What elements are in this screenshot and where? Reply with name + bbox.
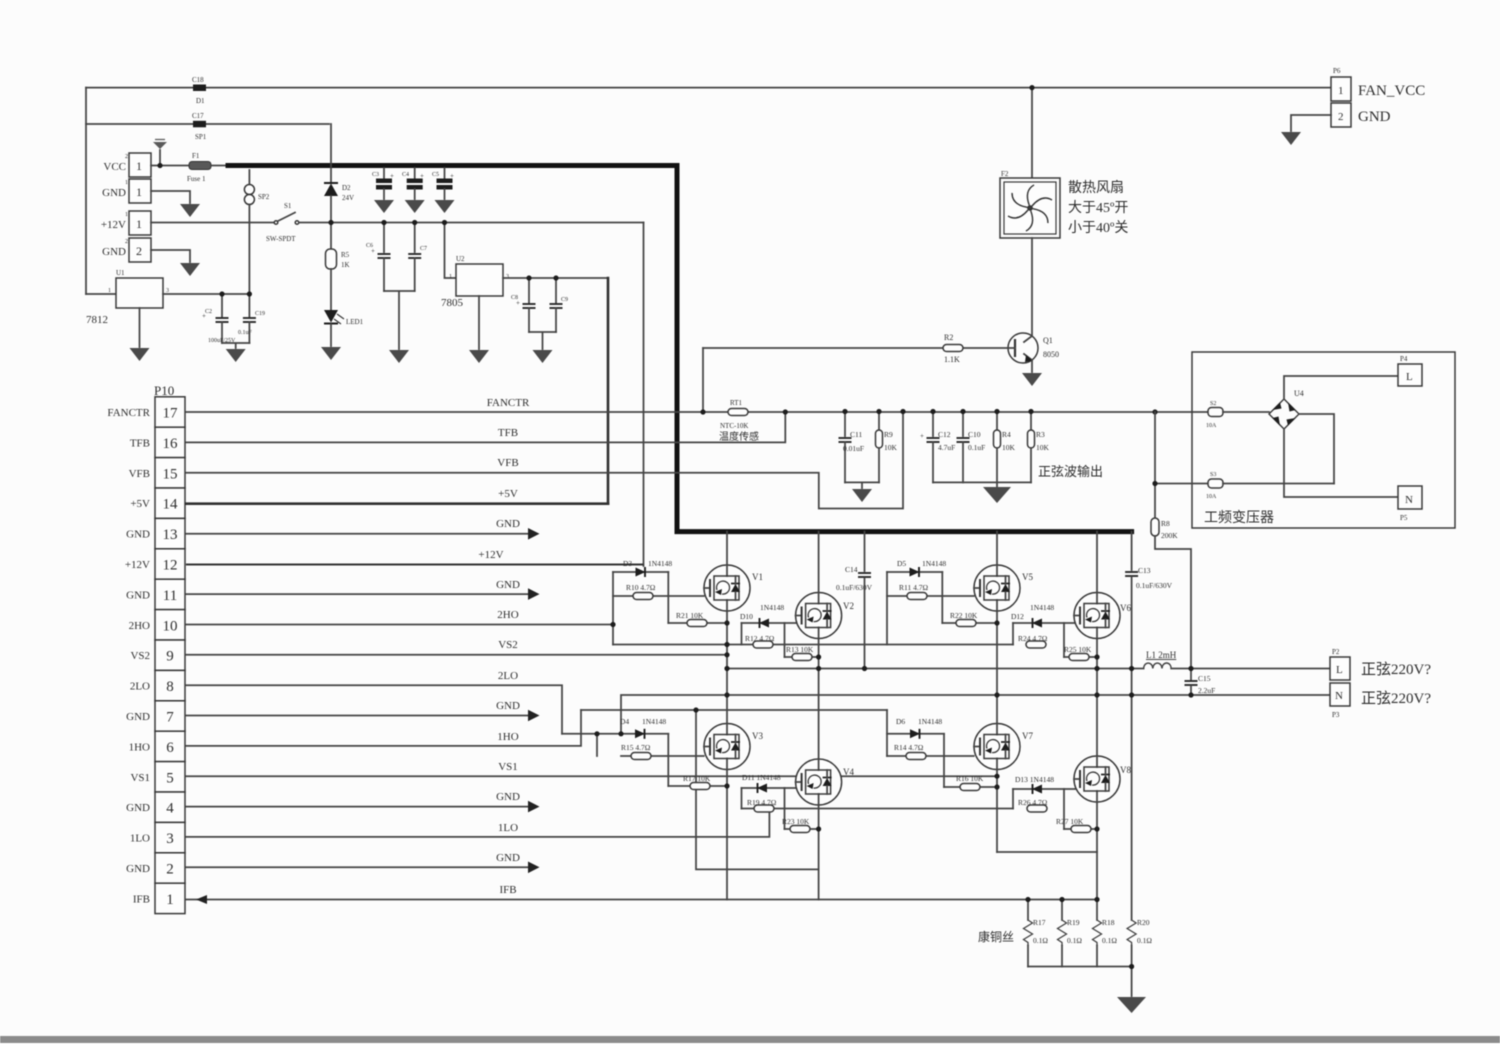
P10 wire IFB / sense rail	[186, 899, 1098, 901]
svg-text:0.1uF/630V: 0.1uF/630V	[1136, 581, 1173, 590]
svg-text:D4: D4	[620, 717, 629, 726]
resistor R9	[878, 412, 880, 431]
svg-text:R19: R19	[1067, 918, 1080, 927]
svg-text:GND: GND	[496, 700, 520, 712]
P10 pin 10 2HO	[155, 610, 185, 640]
svg-text:2HO: 2HO	[497, 609, 518, 621]
P10 pin 16 TFB	[155, 427, 185, 457]
svg-text:0.01uF: 0.01uF	[843, 444, 864, 453]
gate cell V7: D6 R14 R16	[887, 733, 944, 735]
svg-text:10A: 10A	[1206, 423, 1217, 429]
svg-text:10A: 10A	[1206, 494, 1217, 500]
svg-text:R2: R2	[944, 333, 953, 342]
svg-text:200K: 200K	[1161, 531, 1178, 540]
connector L output	[1330, 657, 1350, 680]
svg-text:N: N	[1405, 494, 1413, 506]
signal ground above VCC	[159, 150, 161, 165]
svg-text:S1: S1	[284, 202, 292, 210]
svg-text:R5: R5	[341, 251, 350, 259]
svg-text:V5: V5	[1022, 572, 1033, 582]
svg-text:GND: GND	[126, 863, 150, 875]
main thick +12V bus	[228, 166, 1132, 532]
gate cell V5: D5 R11 R22	[887, 571, 942, 573]
svg-text:R21 10K: R21 10K	[676, 611, 704, 620]
svg-text:康铜丝: 康铜丝	[978, 929, 1014, 944]
svg-text:C19: C19	[255, 311, 265, 317]
resistor R8 200K	[1152, 409, 1157, 414]
svg-text:L: L	[1336, 664, 1343, 676]
bottom grey bar	[0, 1036, 1500, 1043]
svg-text:1K: 1K	[341, 261, 350, 269]
svg-text:C18: C18	[192, 76, 204, 84]
svg-text:12: 12	[163, 558, 178, 574]
svg-text:+12V: +12V	[125, 559, 150, 571]
svg-text:R20: R20	[1137, 918, 1150, 927]
P10 pin 13 GND	[155, 518, 185, 548]
ferrite bead D1 on rail 1	[193, 85, 206, 92]
connector N inside box	[1398, 486, 1422, 509]
svg-text:TFB: TFB	[130, 437, 150, 449]
gate cell V6: D12 R24 R25	[1013, 622, 1064, 624]
gate drive rail top bank	[613, 644, 1013, 646]
cap C2 at 7812 output	[221, 294, 223, 317]
svg-text:R9: R9	[884, 430, 893, 439]
svg-text:D3: D3	[623, 559, 632, 568]
svg-text:VS2: VS2	[498, 639, 518, 651]
P10 wire GND 11	[186, 593, 528, 595]
svg-text:9: 9	[166, 649, 174, 665]
svg-text:GND: GND	[126, 711, 150, 723]
svg-text:P6: P6	[1333, 67, 1341, 75]
svg-text:R13 10K: R13 10K	[786, 645, 814, 654]
svg-text:2LO: 2LO	[498, 670, 518, 682]
cap C10	[962, 412, 964, 437]
svg-text:+5V: +5V	[498, 488, 518, 500]
svg-text:GND: GND	[102, 187, 126, 199]
vertical from FANCTR node to R2	[702, 348, 704, 412]
svg-text:VS1: VS1	[130, 772, 150, 784]
svg-text:C3: C3	[372, 172, 379, 178]
cap C3 on bus	[383, 168, 385, 178]
svg-text:小于40º关: 小于40º关	[1068, 220, 1128, 236]
P10 wire FANCTR	[186, 411, 1208, 413]
P10 wire GND 4	[186, 806, 528, 808]
resistor R5	[326, 249, 337, 269]
svg-text:R8: R8	[1161, 519, 1170, 528]
mosfet V3	[704, 724, 750, 770]
P10 wire VS1	[186, 775, 997, 777]
svg-text:正弦220V?: 正弦220V?	[1361, 661, 1431, 678]
svg-text:R3: R3	[1036, 430, 1045, 439]
cap C14 0.1uF 630V	[864, 532, 866, 571]
svg-text:8050: 8050	[1043, 350, 1059, 359]
svg-text:IFB: IFB	[133, 893, 150, 905]
svg-text:C17: C17	[192, 112, 204, 120]
mosfet V8	[1074, 756, 1120, 802]
+5V feed vertical	[607, 278, 610, 504]
svg-text:10: 10	[163, 618, 178, 634]
P10 pin 2 GND	[155, 853, 185, 883]
svg-text:GND: GND	[126, 589, 150, 601]
svg-text:4: 4	[166, 801, 174, 817]
svg-text:Q1: Q1	[1043, 336, 1053, 345]
drain column V5 V7	[996, 532, 998, 852]
svg-text:7812: 7812	[86, 314, 108, 326]
wire +12V to switch	[151, 222, 274, 224]
mosfet V2	[796, 593, 842, 639]
connector N output	[1330, 683, 1350, 706]
svg-text:C2: C2	[205, 309, 212, 315]
svg-text:R25 10K: R25 10K	[1064, 645, 1092, 654]
base resistor R2	[703, 347, 1015, 349]
P10 wire 2LO	[186, 685, 562, 734]
cap C10b at 7812 output	[248, 294, 250, 317]
gate cell V4: D11 R23	[742, 787, 785, 789]
svg-text:7805: 7805	[441, 297, 464, 309]
svg-text:1.1K: 1.1K	[944, 355, 960, 364]
connector J2 pin GND	[129, 238, 151, 262]
svg-text:温度传感: 温度传感	[719, 430, 759, 443]
P10 pin 5 VS1	[155, 762, 185, 792]
ground arrow of GND pin 1	[151, 191, 190, 203]
+12V feed vertical to gate rail	[643, 223, 645, 567]
resistor R4	[996, 412, 998, 431]
bridge right wire	[1299, 414, 1334, 484]
svg-text:D6: D6	[896, 717, 905, 726]
svg-text:13: 13	[163, 527, 178, 543]
svg-text:0.1uF: 0.1uF	[238, 330, 253, 336]
svg-text:F1: F1	[192, 152, 200, 160]
svg-text:1: 1	[125, 212, 128, 218]
svg-text:正弦波输出: 正弦波输出	[1038, 464, 1103, 479]
svg-text:+12V: +12V	[478, 549, 503, 561]
ground below C6 C7	[384, 291, 415, 349]
svg-text:R16 10K: R16 10K	[956, 774, 984, 783]
svg-text:Fuse 1: Fuse 1	[187, 175, 206, 183]
svg-text:7: 7	[166, 710, 174, 726]
svg-text:V2: V2	[843, 601, 854, 611]
svg-text:1N4148: 1N4148	[760, 603, 784, 612]
ground of FAN_VCC pin2	[1291, 115, 1331, 131]
svg-text:GND: GND	[102, 246, 126, 258]
P10 wire 1HO	[186, 710, 581, 746]
main ground	[1131, 967, 1133, 997]
gate cell V1: D3 R10 R21	[613, 571, 668, 573]
svg-text:R23 10K: R23 10K	[782, 817, 810, 826]
svg-text:+: +	[450, 172, 454, 180]
P10 pin 4 GND	[155, 792, 185, 822]
svg-text:V3: V3	[752, 731, 763, 741]
resistor R3	[1030, 412, 1032, 431]
ground below C8 C9	[529, 332, 556, 349]
gate cell V3: D4 R15 R17	[562, 733, 668, 735]
P10 pin 14 +5V	[155, 488, 185, 518]
svg-text:RT1: RT1	[730, 399, 743, 407]
svg-text:4.7uF: 4.7uF	[938, 443, 955, 452]
svg-text:C9: C9	[561, 297, 568, 303]
svg-text:GND: GND	[496, 579, 520, 591]
svg-text:V8: V8	[1120, 765, 1131, 775]
svg-text:R11 4.7Ω: R11 4.7Ω	[899, 583, 928, 592]
svg-text:2.2uF: 2.2uF	[1198, 686, 1215, 695]
svg-text:D5: D5	[897, 559, 906, 568]
svg-text:C7: C7	[420, 246, 427, 252]
svg-text:0.1Ω: 0.1Ω	[1067, 936, 1082, 945]
P10 pin 15 VFB	[155, 458, 185, 488]
svg-text:3: 3	[506, 274, 509, 280]
svg-text:D2: D2	[342, 184, 351, 192]
svg-text:VCC: VCC	[103, 161, 126, 173]
svg-text:SP1: SP1	[195, 133, 207, 141]
svg-text:VFB: VFB	[129, 468, 150, 480]
svg-text:L1 2mH: L1 2mH	[1146, 650, 1177, 660]
svg-text:3: 3	[166, 831, 174, 847]
svg-text:V1: V1	[752, 572, 763, 582]
svg-text:FANCTR: FANCTR	[107, 407, 150, 419]
ground below C2	[222, 343, 249, 348]
svg-text:C15: C15	[1198, 674, 1211, 683]
svg-text:S2: S2	[1210, 401, 1216, 407]
svg-text:1: 1	[136, 217, 142, 231]
svg-text:10K: 10K	[1036, 443, 1050, 452]
svg-text:C12: C12	[938, 430, 951, 439]
svg-text:S3: S3	[1210, 472, 1216, 478]
sense resistor R18	[1096, 900, 1098, 921]
thermistor RT1	[728, 409, 748, 416]
svg-text:P3: P3	[1332, 711, 1340, 719]
zener column from rail2: zener D2	[330, 124, 332, 183]
P10 pin 7 GND	[155, 701, 185, 731]
svg-text:1: 1	[136, 159, 142, 173]
source rail left bank	[696, 710, 819, 869]
P10 wire VFB	[186, 412, 903, 509]
svg-text:3: 3	[166, 288, 169, 294]
1HO upper run	[581, 709, 887, 711]
svg-text:D13 1N4148: D13 1N4148	[1015, 775, 1054, 784]
svg-text:16: 16	[163, 436, 179, 452]
connector J2 pin +12V	[129, 211, 151, 235]
mosfet V7	[974, 724, 1020, 770]
drain column V2 V4	[818, 532, 820, 900]
svg-text:P10: P10	[154, 383, 174, 398]
svg-text:R24 4.7Ω: R24 4.7Ω	[1018, 634, 1048, 643]
svg-text:GND: GND	[126, 802, 150, 814]
sense bottom rail	[1028, 966, 1132, 968]
svg-text:FANCTR: FANCTR	[487, 397, 530, 409]
fuse S2 on FANCTR line	[1208, 408, 1223, 417]
svg-text:14: 14	[163, 497, 179, 513]
svg-text:2LO: 2LO	[130, 681, 150, 693]
svg-text:1N4148: 1N4148	[1030, 603, 1054, 612]
svg-text:P2: P2	[1332, 648, 1340, 656]
svg-text:D10: D10	[740, 612, 753, 621]
svg-text:1LO: 1LO	[498, 822, 518, 834]
svg-text:R19 4.7Ω: R19 4.7Ω	[747, 798, 777, 807]
svg-text:R4: R4	[1002, 430, 1011, 439]
svg-text:2: 2	[1338, 111, 1344, 123]
svg-text:1: 1	[1338, 85, 1344, 97]
svg-text:0.1Ω: 0.1Ω	[1033, 936, 1048, 945]
wire top rail 2	[86, 123, 329, 125]
ground below LED	[321, 347, 341, 360]
N output wire	[621, 695, 1330, 734]
svg-text:5: 5	[166, 770, 174, 786]
svg-text:R15 4.7Ω: R15 4.7Ω	[621, 743, 651, 752]
svg-text:GND: GND	[496, 518, 520, 530]
svg-text:C11: C11	[850, 430, 862, 439]
svg-text:+: +	[420, 172, 424, 180]
svg-text:GND: GND	[496, 791, 520, 803]
regulator 7812 U1	[86, 293, 116, 295]
svg-text:P5: P5	[1400, 514, 1408, 522]
svg-text:2: 2	[125, 154, 128, 160]
svg-text:D11 1N4148: D11 1N4148	[742, 773, 781, 782]
svg-text:R26 4.7Ω: R26 4.7Ω	[1018, 798, 1048, 807]
svg-text:2: 2	[136, 244, 142, 258]
svg-text:R14 4.7Ω: R14 4.7Ω	[894, 743, 924, 752]
svg-text:VFB: VFB	[497, 457, 518, 469]
wire +12V rail	[299, 222, 644, 224]
svg-text:V4: V4	[843, 767, 854, 777]
svg-text:C10: C10	[968, 430, 981, 439]
svg-text:1N4148: 1N4148	[642, 717, 666, 726]
cap C13 0.1uF 630V	[1131, 532, 1133, 570]
cap C7 on +12V rail	[414, 223, 416, 253]
svg-text:1HO: 1HO	[129, 741, 150, 753]
svg-text:FAN_VCC: FAN_VCC	[1358, 83, 1425, 99]
cap C11	[844, 412, 846, 437]
svg-text:SP2: SP2	[258, 193, 270, 201]
svg-text:V7: V7	[1022, 731, 1033, 741]
drain column V1 V3	[726, 532, 728, 900]
svg-text:15: 15	[163, 466, 178, 482]
svg-text:R12 4.7Ω: R12 4.7Ω	[745, 634, 775, 643]
svg-text:R18: R18	[1102, 918, 1115, 927]
svg-text:1: 1	[108, 288, 111, 294]
source rail right bank	[997, 851, 1097, 853]
svg-text:工频变压器: 工频变压器	[1204, 510, 1274, 526]
svg-text:C4: C4	[402, 172, 409, 178]
P10 pin 8 2LO	[155, 670, 185, 700]
svg-text:C5: C5	[432, 172, 439, 178]
svg-text:大于45º开: 大于45º开	[1068, 200, 1128, 216]
svg-text:散热风扇: 散热风扇	[1068, 180, 1124, 196]
P10 wire GND 7	[186, 715, 528, 717]
svg-text:10K: 10K	[884, 443, 898, 452]
gate cell V2: D10 R12 R13	[742, 622, 785, 624]
wire left vertical	[85, 88, 87, 294]
svg-text:R17: R17	[1033, 918, 1046, 927]
low side gate rail	[742, 808, 1014, 810]
svg-text:1: 1	[136, 185, 142, 199]
LED1	[324, 310, 338, 323]
svg-text:C14: C14	[845, 565, 858, 574]
P10 pin 11 GND	[155, 579, 185, 609]
svg-text:1: 1	[449, 274, 452, 280]
regulator 7805 U2	[445, 223, 457, 279]
mosfet V4	[796, 759, 842, 805]
svg-text:6: 6	[166, 740, 174, 756]
fuse S3 on lower line	[1155, 483, 1208, 485]
P10 pin 1 IFB	[155, 883, 185, 913]
svg-text:17: 17	[163, 406, 179, 422]
svg-text:P4: P4	[1400, 355, 1408, 363]
svg-text:+5V: +5V	[130, 498, 150, 510]
svg-text:1LO: 1LO	[130, 833, 150, 845]
svg-text:2: 2	[166, 862, 174, 878]
svg-text:+12V: +12V	[101, 219, 126, 231]
cap C15 2.2uF	[1185, 681, 1198, 685]
svg-text:C6: C6	[366, 243, 373, 249]
cap C4 on bus	[414, 168, 416, 178]
connector FAN_VCC	[1331, 77, 1351, 101]
svg-text:1: 1	[125, 180, 128, 186]
svg-text:L: L	[1406, 371, 1413, 383]
P10 pin 9 VS2	[155, 640, 185, 670]
mosfet V5	[974, 565, 1020, 611]
svg-text:1N4148: 1N4148	[918, 717, 942, 726]
P10 pin 12 +12V	[155, 549, 185, 579]
cap C5 on bus	[444, 168, 446, 178]
svg-text:GND: GND	[496, 852, 520, 864]
spark gap SP2 column	[248, 170, 250, 185]
connector J1 pin GND	[129, 179, 151, 203]
switch S1 SW-SPDT	[274, 221, 278, 225]
bridge top wire to L	[1284, 376, 1398, 399]
svg-text:R17 10K: R17 10K	[683, 774, 711, 783]
svg-text:F2: F2	[1001, 170, 1009, 178]
svg-text:0.1uF/630V: 0.1uF/630V	[836, 583, 873, 592]
sense resistor R17b	[1027, 900, 1029, 921]
svg-text:U2: U2	[456, 255, 465, 263]
svg-text:IFB: IFB	[499, 884, 516, 896]
svg-text:C13: C13	[1138, 566, 1151, 575]
P10 wire +12V 12	[186, 564, 644, 566]
svg-text:2: 2	[125, 239, 128, 245]
P10 wire 2HO	[186, 624, 613, 626]
svg-text:C8: C8	[511, 295, 518, 301]
P10 wire GND 13	[186, 533, 528, 535]
svg-text:1HO: 1HO	[497, 731, 518, 743]
mosfet V6	[1074, 593, 1120, 639]
svg-text:1N4148: 1N4148	[922, 559, 946, 568]
transformer outline box	[1192, 352, 1455, 528]
svg-text:1N4148: 1N4148	[648, 559, 672, 568]
svg-text:SW-SPDT: SW-SPDT	[266, 235, 296, 243]
inductor L1 output wire	[727, 668, 1144, 670]
svg-text:V6: V6	[1120, 603, 1131, 613]
ferrite bead SP1 on rail 2	[193, 121, 206, 128]
svg-text:0.1uF: 0.1uF	[968, 443, 985, 452]
drain column V6 V8	[1096, 532, 1098, 900]
bridge rectifier U4	[1269, 399, 1299, 429]
svg-text:24V: 24V	[342, 194, 354, 202]
svg-text:0.1Ω: 0.1Ω	[1137, 936, 1152, 945]
sense resistor R19b	[1061, 900, 1063, 921]
svg-text:11: 11	[163, 588, 177, 604]
svg-text:U1: U1	[116, 269, 125, 277]
P10 pin 6 1HO	[155, 731, 185, 761]
wire fan to Q1	[1031, 238, 1033, 336]
cap C9 at 7805 output	[555, 278, 557, 303]
svg-text:10K: 10K	[1002, 443, 1016, 452]
cap C8 at 7805 output	[528, 278, 530, 303]
svg-text:+: +	[390, 172, 394, 180]
connector L inside box	[1398, 364, 1422, 386]
svg-text:LED1: LED1	[346, 318, 364, 326]
svg-text:GND: GND	[1358, 109, 1391, 125]
ground below C11 R9	[845, 482, 879, 488]
